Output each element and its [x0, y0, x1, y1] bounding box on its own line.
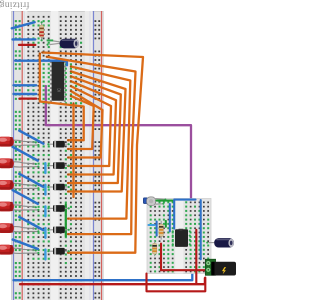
led LED2 [0, 158, 14, 168]
orange wire A [42, 53, 143, 253]
mini board holes [150, 202, 209, 273]
wire blue diagonal top-left [12, 22, 35, 28]
power supply body [211, 262, 236, 276]
wire blue mini jumper [169, 204, 171, 231]
diode D1 [47, 141, 69, 148]
wire green mini vertical [165, 221, 167, 227]
orange wire 6 [68, 91, 103, 158]
diode D2 [47, 162, 69, 169]
svg-text:fritzing: fritzing [0, 0, 30, 10]
diode D5 [47, 227, 69, 234]
orange wire 4 [68, 81, 116, 174]
led LED6 [0, 245, 14, 255]
wire blue diagonal 6 [13, 240, 38, 249]
orange wire B [47, 57, 136, 234]
wire blue diagonal 2 [13, 147, 38, 161]
mini board connected holes (green) [150, 201, 210, 272]
orange wire endpoint dots [39, 52, 75, 254]
wire blue mini L [174, 200, 195, 229]
orange wire 8 [40, 54, 84, 141]
diode D3 [47, 184, 69, 191]
power supply PCB [205, 259, 215, 275]
wire blue to IC [15, 61, 67, 66]
svg-text:IC: IC [56, 88, 61, 92]
diode D6 [47, 248, 69, 255]
rail holes green [15, 20, 21, 299]
wire cyan jumper 2 [44, 185, 46, 195]
led LED3 leads [12, 183, 38, 188]
led LED1 [0, 137, 14, 147]
orange wire 3 [68, 76, 121, 183]
led LED4 leads [12, 205, 38, 210]
right power rail lines [93, 11, 102, 300]
wire green vertical [65, 205, 67, 237]
resistor R3 [152, 241, 156, 256]
wire red rail feed [20, 97, 37, 99]
orange wire 1 [68, 67, 130, 219]
main breadboard [11, 11, 103, 300]
wire blue diagonal 1 [19, 131, 43, 144]
wire cyan mini horizontal [149, 224, 155, 226]
wire blue horizontal upper-left [13, 38, 36, 40]
wire blue long bottom [14, 234, 193, 281]
orange wire 2 [68, 71, 126, 191]
capacitor C2 [206, 238, 234, 247]
wire blue stub above corner [191, 241, 193, 250]
led LED6 leads [12, 248, 38, 253]
capacitor C1 [47, 39, 80, 49]
left power rail lines [13, 11, 23, 300]
wire purple [46, 86, 191, 234]
wire cyan jumper 1 [44, 163, 46, 173]
led LED1 leads [12, 140, 38, 145]
wire cyan jumper 3 [44, 206, 46, 216]
wire blue rail feed 2 [14, 93, 37, 95]
wire blue mini right [200, 200, 202, 259]
ic U1 body [52, 60, 65, 101]
resistor R2 [159, 221, 163, 240]
main board hole grid [27, 16, 82, 299]
trimpot RV1 [143, 197, 166, 206]
orange wire 5 [68, 86, 111, 166]
wire red mini left [161, 244, 205, 271]
ic U2 pins [172, 230, 174, 232]
orange wire 7 [68, 96, 94, 149]
led LED4 [0, 202, 14, 212]
wire blue diagonal 5 [19, 217, 43, 230]
wire red long bottom [20, 278, 205, 284]
led LED5 leads [12, 227, 38, 232]
wire red mini vertical [195, 230, 197, 284]
wire blue diagonal 3 [19, 174, 43, 187]
wire cyan jumper 4 [44, 228, 46, 238]
wire blue mini left vertical [156, 222, 158, 236]
resistor R1 [39, 21, 43, 41]
led LED5 [0, 223, 14, 233]
wire blue diagonal 4 [13, 190, 38, 204]
wire red mini lower [147, 274, 206, 292]
main board connected holes (green) [27, 20, 82, 264]
wire blue rail feed 1 [14, 84, 37, 86]
wire green mini top [157, 200, 173, 202]
orange wire inner vertical [72, 103, 74, 197]
led LED2 leads [12, 162, 38, 167]
wire red upper-left [19, 44, 35, 46]
ic U1 pins [50, 61, 52, 63]
led LED3 [0, 180, 14, 190]
wire cyan jumper 5 [44, 250, 46, 260]
rail holes dark [95, 20, 101, 298]
mini breadboard [147, 199, 211, 274]
ic U2 body [175, 229, 188, 247]
diode D4 [47, 205, 69, 212]
